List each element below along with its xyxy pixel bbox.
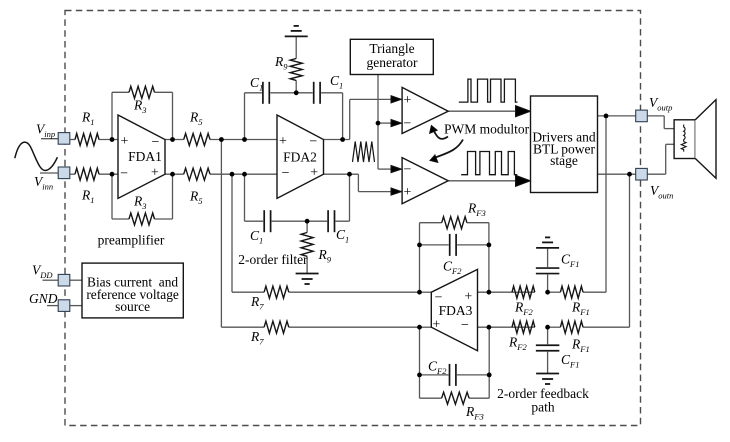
svg-text:−: − [404,117,412,132]
svg-text:−: − [461,318,469,333]
svg-text:preamplifier: preamplifier [98,233,165,248]
svg-text:−: − [120,167,128,182]
svg-text:R3: R3 [133,194,147,212]
svg-text:−: − [152,135,160,150]
svg-text:+: + [151,166,159,181]
svg-text:FDA3: FDA3 [439,303,473,318]
svg-text:RF3: RF3 [465,404,484,422]
svg-text:+: + [404,185,412,200]
svg-text:−: − [435,291,443,306]
svg-text:Triangle: Triangle [369,41,414,56]
svg-text:Vinn: Vinn [34,174,53,192]
svg-text:RF2: RF2 [514,300,533,318]
svg-text:+: + [121,134,129,149]
svg-text:CF1: CF1 [561,352,579,370]
svg-text:+: + [404,93,412,108]
svg-text:+: + [310,166,318,181]
svg-text:R5: R5 [189,110,203,128]
svg-text:FDA1: FDA1 [128,149,162,164]
svg-text:C1: C1 [336,227,349,245]
svg-text:RF3: RF3 [467,201,486,219]
svg-text:generator: generator [367,55,418,70]
svg-text:R9: R9 [274,54,288,72]
svg-text:Voutn: Voutn [650,183,673,201]
svg-text:FDA2: FDA2 [283,150,317,165]
svg-text:R5: R5 [189,189,203,207]
svg-text:RF1: RF1 [571,300,590,318]
svg-text:−: − [404,163,412,178]
svg-text:C1: C1 [250,75,263,93]
svg-text:R7: R7 [250,329,264,347]
svg-text:PWM modultor: PWM modultor [444,122,530,137]
svg-text:+: + [432,317,440,332]
svg-text:RF2: RF2 [508,335,527,353]
svg-text:R1: R1 [81,110,95,128]
svg-text:−: − [282,166,290,181]
svg-text:source: source [115,299,150,314]
svg-text:CF2: CF2 [428,359,447,377]
svg-text:CF1: CF1 [561,252,579,270]
svg-text:2-order filter: 2-order filter [238,252,308,267]
svg-text:stage: stage [550,153,578,168]
svg-text:Vinp: Vinp [36,122,55,140]
svg-text:+: + [279,134,287,149]
svg-text:R9: R9 [318,247,332,265]
svg-text:R3: R3 [133,98,147,116]
svg-text:path: path [531,400,554,415]
svg-text:GND: GND [29,291,58,306]
svg-text:RF1: RF1 [571,337,590,355]
svg-text:C1: C1 [250,228,263,246]
svg-text:−: − [309,135,317,150]
svg-text:CF2: CF2 [443,259,462,277]
svg-text:R1: R1 [81,188,95,206]
svg-text:+: + [464,289,472,304]
svg-text:VDD: VDD [32,263,53,281]
svg-text:R7: R7 [250,294,264,312]
svg-text:Voutp: Voutp [649,95,672,113]
svg-text:C1: C1 [330,73,343,91]
